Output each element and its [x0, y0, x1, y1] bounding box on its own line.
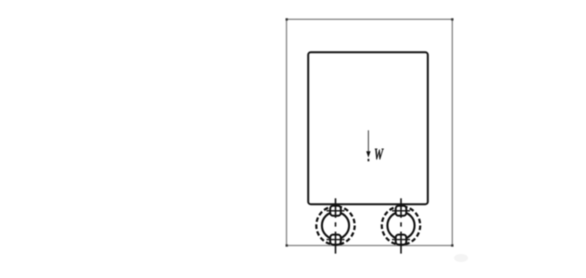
- left wheel inner circle: [322, 212, 349, 239]
- frame corner tick top-right: [451, 18, 453, 20]
- left wheel centerline center dash: [335, 222, 337, 226]
- right wheel centerline center dash: [400, 222, 402, 226]
- left wheel bottom bearing: [327, 235, 345, 245]
- right wheel: [382, 198, 420, 253]
- right wheel outer dashed circle: [382, 206, 420, 244]
- frame corner tick bottom-left: [286, 244, 288, 246]
- faint artifact smudge: [454, 254, 468, 262]
- load arrow W shaft: [367, 130, 369, 152]
- right wheel centerline lower segment: [400, 232, 402, 254]
- label W: [375, 149, 384, 160]
- right wheel centerline upper segment: [400, 198, 402, 218]
- frame corner tick top-left: [286, 18, 288, 20]
- machine body: [308, 52, 428, 204]
- load arrow W head: [366, 151, 370, 157]
- left wheel centerline lower segment: [335, 232, 337, 254]
- left wheel centerline upper segment: [335, 198, 337, 218]
- outer frame: [287, 19, 453, 245]
- load arrow W tip dot: [368, 159, 370, 162]
- frame corner tick bottom-right: [451, 244, 453, 246]
- right wheel inner circle: [387, 212, 414, 239]
- left wheel: [316, 198, 354, 253]
- right wheel top bearing: [392, 206, 410, 216]
- left wheel top bearing: [327, 206, 345, 216]
- left wheel outer dashed circle: [316, 206, 354, 244]
- right wheel bottom bearing: [392, 235, 410, 245]
